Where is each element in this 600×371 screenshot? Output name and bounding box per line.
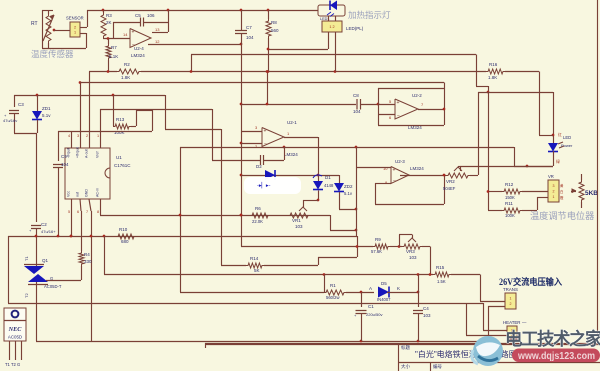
wire left frame: [8, 236, 10, 303]
wire U2-2 output: [418, 109, 444, 111]
connector LED PL: [322, 21, 342, 32]
wire D2 net: [241, 175, 339, 177]
wire bottom rail y341: [36, 303, 38, 341]
zener ZD1: [37, 95, 39, 111]
svg-text:57.6K: 57.6K: [371, 249, 382, 254]
IC U1 C1761C: [65, 148, 110, 199]
svg-text:150K: 150K: [505, 195, 515, 200]
svg-text:C3: C3: [18, 102, 24, 107]
svg-text:LM324: LM324: [284, 152, 298, 157]
svg-text:IN4007: IN4007: [377, 297, 391, 302]
resistor R8: [268, 10, 270, 19]
svg-text:504EF: 504EF: [443, 186, 456, 191]
wire trans pin2: [488, 306, 505, 308]
resistor R9: [373, 244, 390, 249]
svg-text:-INput: -INput: [67, 148, 71, 158]
wire c9 top net: [58, 131, 152, 133]
op-amp U2-4: [130, 29, 151, 48]
capacitor C6: [212, 160, 260, 162]
svg-text:R13: R13: [116, 117, 125, 122]
svg-text:红: 红: [558, 132, 562, 137]
wire y274 bus: [104, 274, 433, 276]
svg-text:D1: D1: [325, 175, 331, 180]
svg-text:VR1: VR1: [292, 218, 301, 223]
svg-text:1.8K: 1.8K: [488, 75, 497, 80]
wire U1 pin2 up: [80, 83, 82, 149]
svg-text:560: 560: [271, 28, 279, 33]
wire r1 feed: [324, 275, 326, 293]
wire LED1 cathode: [335, 32, 337, 72]
svg-text:5KB: 5KB: [585, 190, 598, 197]
diode D2: [265, 170, 275, 180]
svg-text:AC05D: AC05D: [8, 335, 22, 340]
connector SENSOR: [70, 22, 80, 37]
svg-text:5K: 5K: [254, 268, 260, 273]
wire sensor to top bus: [80, 27, 87, 29]
svg-text:R7: R7: [111, 45, 117, 50]
wire y257 jog: [318, 257, 357, 259]
wire U1 pin1 to c9 net: [71, 131, 73, 148]
svg-text:22.0K: 22.0K: [252, 219, 263, 224]
wire y215 bus: [100, 215, 330, 217]
svg-text:K: K: [397, 286, 400, 291]
svg-text:电工技术之家: 电工技术之家: [505, 329, 600, 349]
wire U1 pin4 up: [100, 109, 102, 148]
wire to trans pin1: [451, 274, 480, 276]
svg-text:5.1K: 5.1K: [109, 54, 118, 59]
wire y236 bus: [8, 236, 357, 238]
svg-text:SENSOR: SENSOR: [66, 16, 84, 21]
svg-text:Vref: Vref: [96, 152, 100, 158]
svg-text:7: 7: [86, 210, 88, 214]
wire VR2 right up: [470, 175, 478, 177]
svg-text:106: 106: [147, 13, 155, 18]
wire y303 bus: [8, 303, 483, 305]
svg-text:VR3: VR3: [406, 249, 415, 254]
svg-text:U2-3: U2-3: [395, 159, 405, 164]
svg-text:T1: T1: [24, 256, 29, 261]
svg-text:103: 103: [409, 255, 417, 260]
svg-text:100K: 100K: [114, 130, 125, 135]
capacitor C5: [113, 22, 115, 39]
svg-text:47u/16v: 47u/16v: [3, 118, 17, 123]
svg-text:C7: C7: [246, 25, 252, 30]
wire U2-2 feedback box: [378, 88, 444, 90]
svg-text:R2: R2: [124, 62, 130, 67]
resistor R4: [79, 251, 84, 266]
svg-text:+: +: [132, 30, 135, 36]
wire inverting node: [103, 38, 130, 40]
svg-text:103: 103: [295, 224, 303, 229]
svg-text:Vcc: Vcc: [67, 191, 71, 197]
svg-text:26V交流电压输入: 26V交流电压输入: [499, 276, 562, 287]
svg-text:C5: C5: [135, 13, 141, 18]
wire U2-4 output: [148, 44, 241, 46]
svg-text:白: 白: [560, 189, 563, 194]
svg-text:—: —: [522, 320, 527, 325]
svg-text:VR2: VR2: [446, 179, 455, 184]
svg-text:R10: R10: [119, 227, 128, 232]
svg-text:绿: 绿: [556, 159, 560, 164]
diode D1: [318, 175, 320, 181]
white patch: [244, 177, 301, 194]
thermistor RT: [42, 10, 53, 12]
svg-text:C1761C: C1761C: [114, 163, 131, 168]
svg-text:2: 2: [510, 302, 512, 306]
capacitor C8: [357, 99, 361, 110]
wire y147 long net: [180, 147, 514, 149]
svg-text:AC05D-T: AC05D-T: [44, 284, 62, 289]
svg-text:加热指示灯: 加热指示灯: [348, 10, 391, 20]
wire zd1 to c2: [14, 133, 37, 135]
svg-text:104: 104: [246, 35, 254, 40]
wire net A vertical x241: [241, 44, 243, 247]
wire RT bottom: [42, 48, 86, 50]
svg-text:R16: R16: [489, 62, 498, 67]
svg-text:-▸▏▸-: -▸▏▸-: [257, 181, 271, 189]
svg-text:R12: R12: [505, 182, 514, 187]
svg-text:104: 104: [353, 109, 361, 114]
svg-text:100K: 100K: [505, 213, 515, 218]
svg-text:1.8K: 1.8K: [121, 75, 130, 80]
resistor R10: [116, 234, 136, 239]
resistor R13: [113, 124, 131, 129]
svg-text:NEC: NEC: [8, 326, 23, 333]
svg-text:温度传感器: 温度传感器: [31, 49, 74, 59]
op-amp U2-1: [262, 128, 284, 147]
wire gate: [46, 280, 81, 282]
resistor R11: [488, 210, 502, 212]
svg-text:1.5K: 1.5K: [437, 279, 446, 284]
wire right border: [597, 0, 599, 343]
wire U2-1 output: [284, 137, 318, 139]
svg-text:2: 2: [86, 134, 88, 138]
potentiometer VR3: [402, 244, 422, 249]
wire top bus: [87, 10, 318, 12]
svg-text:+: +: [264, 129, 267, 135]
svg-text:1 2: 1 2: [329, 25, 334, 29]
op-amp U2-3: [391, 167, 409, 184]
capacitor C3: [14, 95, 16, 107]
wire supply rail y95: [14, 95, 165, 97]
svg-text:C4: C4: [423, 306, 429, 311]
svg-text:1: 1: [553, 195, 555, 199]
svg-text:−: −: [393, 178, 396, 184]
svg-text:U1: U1: [116, 155, 122, 160]
wire vr3 right: [422, 246, 430, 248]
svg-text:R14: R14: [250, 256, 259, 261]
wire heater feeds: [466, 303, 468, 335]
svg-text:680: 680: [121, 239, 129, 244]
svg-text:R1: R1: [330, 283, 336, 288]
wire U2-3 noninv: [356, 167, 391, 169]
svg-text:LED: LED: [563, 135, 571, 140]
wire r9 right: [390, 246, 402, 248]
svg-text:R11: R11: [505, 201, 513, 206]
node RT wiper: [53, 29, 56, 32]
svg-text:R3: R3: [106, 13, 112, 18]
svg-text:VR: VR: [548, 174, 554, 179]
wire U1 pin8 down: [100, 199, 102, 215]
watermark url: [512, 349, 600, 363]
wire r16 right: [505, 71, 539, 73]
svg-text:C1: C1: [368, 304, 374, 309]
svg-text:AC-in: AC-in: [96, 188, 100, 197]
svg-text:5.1v: 5.1v: [344, 191, 353, 196]
wire Vplus rail: [191, 54, 476, 56]
resistor R12: [488, 191, 502, 193]
svg-text:TRANS: TRANS: [503, 287, 518, 292]
svg-text:D5: D5: [381, 281, 387, 286]
svg-text:104: 104: [61, 162, 69, 167]
wire y246 net: [241, 246, 373, 248]
svg-text:C2: C2: [41, 222, 47, 227]
svg-text:2: 2: [553, 189, 555, 193]
wire U2-4 feedback top: [152, 32, 168, 34]
svg-text:ZD2: ZD2: [344, 184, 353, 189]
wire Vplus corner: [476, 55, 478, 87]
wire y265 bus R14: [221, 265, 246, 267]
capacitor C2: [31, 226, 41, 229]
wire mid bus y71: [141, 71, 486, 73]
triac Q1: [24, 266, 44, 274]
svg-text:A: A: [369, 286, 372, 291]
resistor R16: [486, 69, 505, 74]
wire vr1 right: [330, 215, 332, 230]
wire U2-3 feedback: [375, 183, 391, 185]
wire U1 pin7 down: [89, 199, 91, 211]
resistor R2: [89, 71, 117, 73]
svg-text:4: 4: [68, 134, 70, 138]
svg-text:A-out: A-out: [85, 149, 89, 158]
LED LED2: [548, 143, 558, 152]
svg-text:RT: RT: [31, 21, 38, 27]
svg-text:R6: R6: [255, 206, 261, 211]
svg-text:LM324: LM324: [410, 166, 424, 171]
wire y292 AC line: [180, 292, 324, 294]
svg-text:ZD1: ZD1: [42, 106, 51, 111]
svg-text:R4: R4: [84, 252, 90, 257]
svg-text:4148: 4148: [324, 183, 334, 188]
wire u22 noninv y104: [267, 72, 269, 105]
potentiometer 5KB: [579, 180, 584, 202]
svg-text:3: 3: [77, 134, 79, 138]
svg-text:103: 103: [423, 313, 431, 318]
connector VR: [548, 180, 559, 202]
wire U1 pin3 up: [89, 72, 91, 149]
svg-text:D2: D2: [256, 164, 262, 169]
package NEC AC05D: [4, 308, 26, 341]
svg-text:5: 5: [68, 210, 70, 214]
wire x356 vertical: [356, 147, 358, 236]
svg-text:2: 2: [74, 25, 76, 29]
svg-text:+: +: [397, 100, 400, 106]
svg-text:R9: R9: [375, 237, 381, 242]
svg-text:GND: GND: [85, 189, 89, 197]
LED LED1: [318, 5, 345, 16]
potentiometer VR2: [446, 173, 470, 178]
svg-text:C8: C8: [353, 93, 359, 98]
resistor R15: [433, 272, 451, 277]
capacitor C4: [418, 275, 420, 308]
resistor R6: [250, 213, 270, 218]
svg-text:T1 T2 G: T1 T2 G: [5, 362, 20, 367]
wire x357 drop: [357, 236, 359, 257]
svg-text:U2-1: U2-1: [287, 120, 297, 125]
wire LED1 anode: [268, 49, 328, 51]
svg-text:LED(PL): LED(PL): [346, 26, 364, 31]
svg-text:5.1v: 5.1v: [42, 113, 51, 118]
wire: [346, 292, 374, 294]
svg-text:47u/16+: 47u/16+: [41, 229, 56, 234]
wire wiper line: [460, 166, 553, 168]
svg-text:Q1: Q1: [42, 258, 49, 263]
svg-text:+INput: +INput: [76, 147, 80, 158]
wire r13 tap: [113, 95, 115, 126]
svg-text:3: 3: [553, 184, 555, 188]
svg-text:LM324: LM324: [131, 53, 145, 58]
title block border: [205, 343, 600, 345]
svg-text:−: −: [397, 114, 400, 120]
resistor R7: [108, 39, 110, 45]
svg-text:www.dqjs123.com: www.dqjs123.com: [517, 351, 595, 362]
svg-text:560/2w: 560/2w: [326, 295, 340, 300]
svg-text:1: 1: [97, 134, 99, 138]
svg-text:R15: R15: [436, 265, 445, 270]
svg-text:U2-2: U2-2: [412, 93, 422, 98]
wire y95 corner net: [165, 95, 167, 129]
svg-text:Power: Power: [561, 143, 573, 148]
svg-text:6: 6: [77, 210, 79, 214]
wire zd2 bottom: [339, 209, 356, 211]
wire U2-3 output: [400, 175, 446, 177]
wire: [387, 292, 418, 294]
svg-text:330: 330: [84, 259, 92, 264]
svg-text:1: 1: [74, 30, 76, 34]
zener ZD2: [339, 175, 341, 183]
svg-text:12: 12: [155, 39, 160, 44]
svg-text:13: 13: [155, 27, 160, 32]
capacitor C7: [241, 10, 243, 30]
capacitor C1: [361, 292, 363, 307]
potentiometer VR1: [288, 213, 310, 218]
svg-text:R8: R8: [271, 20, 277, 25]
wire U1 pin6 down: [80, 199, 81, 211]
wire U2-1 inputs: [241, 131, 262, 133]
svg-text:大小: 大小: [401, 363, 410, 370]
watermark logo: [473, 336, 503, 366]
resistor R14: [246, 263, 264, 268]
resistor R3: [103, 10, 105, 13]
svg-text:10: 10: [383, 166, 388, 171]
svg-text:C9: C9: [61, 154, 67, 159]
svg-text:HEATER: HEATER: [503, 320, 520, 325]
svg-text:8: 8: [97, 210, 99, 214]
svg-text:温度调节电位器: 温度调节电位器: [530, 210, 594, 221]
op-amp U2-2: [395, 99, 418, 119]
wire led2 feed y92: [478, 92, 553, 94]
svg-text:1: 1: [510, 297, 512, 301]
wire U1 pin5 down: [71, 199, 73, 236]
svg-text:U2-4: U2-4: [134, 46, 144, 51]
svg-text:标题: 标题: [401, 344, 410, 351]
svg-text:编号: 编号: [433, 363, 442, 370]
resistor R1: [324, 290, 346, 295]
svg-text:−: −: [264, 141, 267, 147]
svg-text:out: out: [76, 192, 80, 197]
svg-text:2K: 2K: [106, 20, 112, 25]
wire sensor lower: [80, 33, 86, 35]
svg-text:T2: T2: [24, 293, 29, 298]
svg-text:+: +: [393, 168, 396, 174]
capacitor C9: [58, 131, 60, 161]
svg-text:220u/50v: 220u/50v: [366, 312, 382, 317]
wire y82 bus: [80, 82, 444, 84]
wire LED2 cathode: [553, 151, 555, 166]
svg-text:14: 14: [123, 32, 128, 37]
